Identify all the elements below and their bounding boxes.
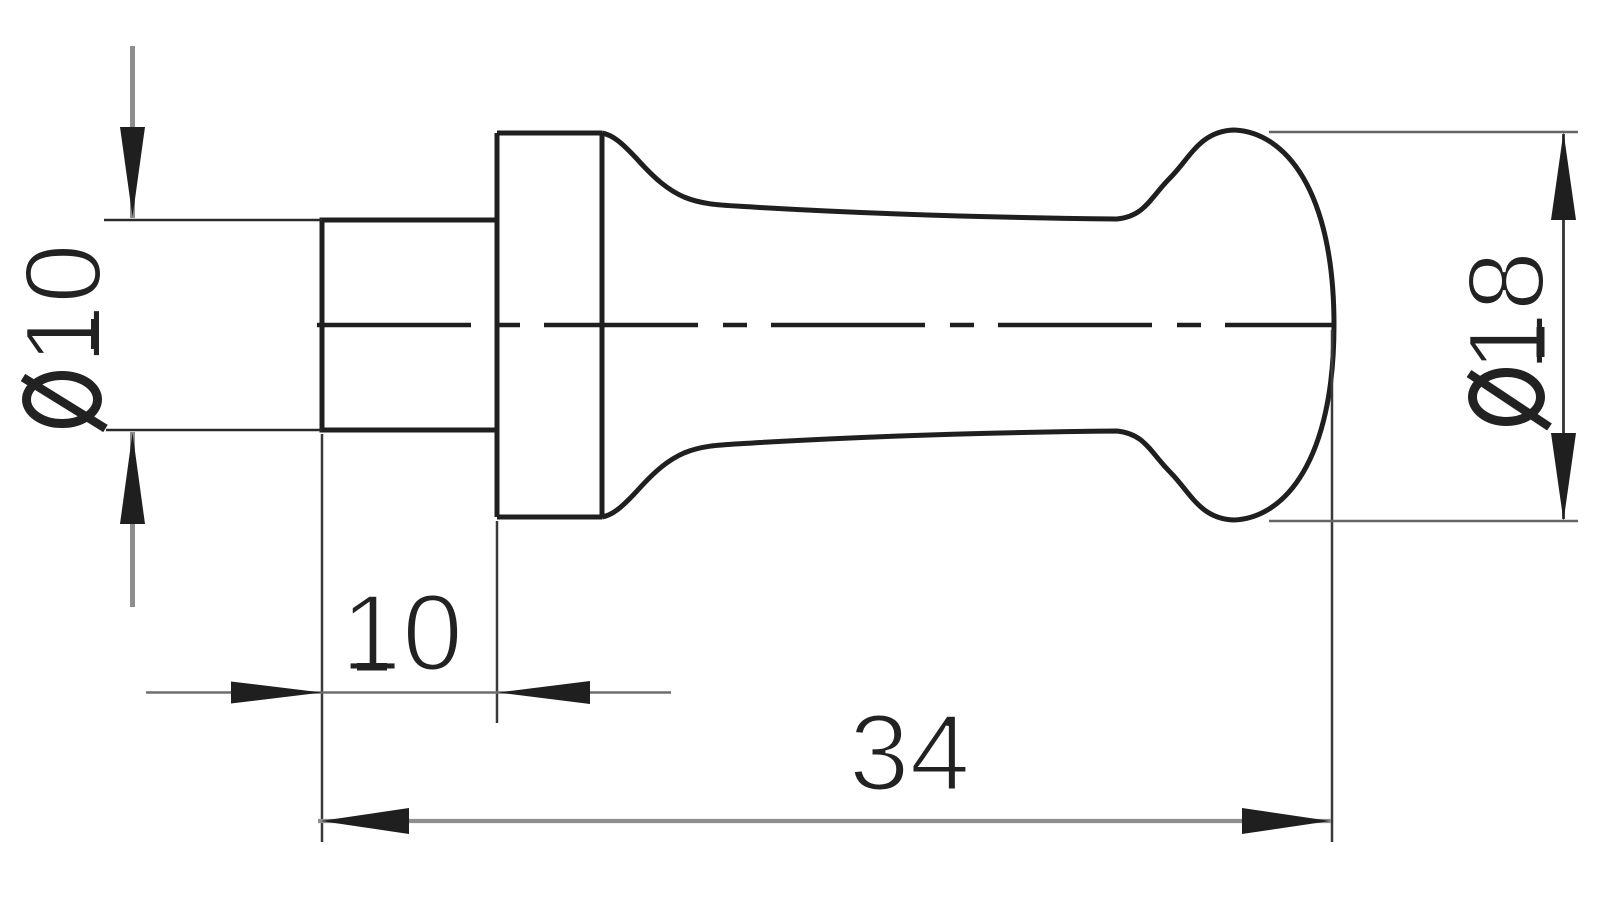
extension line knob-right vertical [1331, 330, 1334, 842]
label 10 foot serif [357, 663, 387, 671]
arrow O10 down [120, 127, 145, 217]
svg-text:0: 0 [3, 243, 125, 304]
dimension line O10 upper [130, 46, 135, 218]
extension line flange-left vertical [496, 521, 499, 723]
svg-text:34: 34 [849, 692, 970, 814]
svg-text:0: 0 [402, 572, 463, 694]
extension line stem-left vertical [321, 434, 324, 842]
arrow 10 left [231, 682, 322, 704]
extension line O18 top [1269, 131, 1578, 134]
arrow 34 left [321, 808, 409, 834]
centerline [317, 323, 1333, 328]
dimension line O10 lower [130, 432, 135, 607]
svg-text:1: 1 [341, 572, 402, 694]
part outline: stem [322, 130, 1334, 520]
part outline: handle profile [602, 130, 1334, 520]
dimension line O18 [1562, 134, 1565, 519]
label O18 diameter symbol [1473, 373, 1541, 422]
label O18 foot serif [1537, 327, 1545, 357]
label O10 rotated digits [3, 243, 125, 365]
extension line O18 bottom [1269, 520, 1578, 523]
arrow 10 right [499, 681, 591, 704]
arrow O10 up [120, 433, 145, 524]
svg-text:8: 8 [1446, 251, 1568, 312]
arrow O18 down [1551, 433, 1576, 521]
dimension line 34 [318, 819, 1331, 823]
dimension line 10 [146, 691, 671, 694]
svg-text:1: 1 [3, 304, 125, 365]
arrow 34 right [1242, 808, 1330, 834]
label O18 rotated digits [1446, 251, 1568, 373]
label O10 foot serif [91, 319, 99, 349]
svg-text:1: 1 [1446, 312, 1568, 373]
label O10 diameter symbol [27, 376, 98, 424]
extension line bottom-left (stem bottom) [106, 429, 322, 432]
part outline: flange [497, 133, 602, 517]
extension line top-left (stem top) [104, 219, 322, 222]
arrow O18 up [1551, 132, 1576, 220]
